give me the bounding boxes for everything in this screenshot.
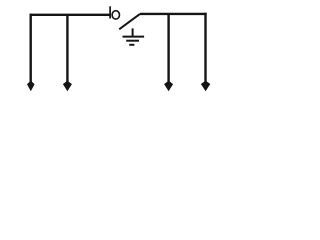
arrowhead 4 xyxy=(201,81,210,92)
wire: left vertical drop at T junction xyxy=(66,15,68,83)
wire: right vertical drop at T junction xyxy=(167,14,169,83)
wire: left vertical drop from corner xyxy=(30,14,32,83)
switch SW1 left contact bar xyxy=(109,6,111,18)
ground bar 3 xyxy=(129,44,134,46)
arrowhead 2 xyxy=(63,81,72,92)
wire: right vertical drop from corner xyxy=(204,13,206,83)
arrowhead 1 xyxy=(27,81,35,92)
ground bar 2 xyxy=(126,40,139,42)
ground bar 1 xyxy=(123,36,145,38)
ground stem xyxy=(132,28,134,36)
wire: right top horizontal xyxy=(140,13,207,15)
wire: left top horizontal xyxy=(30,14,111,16)
switch SW1 contact circle xyxy=(112,11,119,19)
switch SW1 blade xyxy=(119,14,140,29)
arrowhead 3 xyxy=(164,81,173,92)
